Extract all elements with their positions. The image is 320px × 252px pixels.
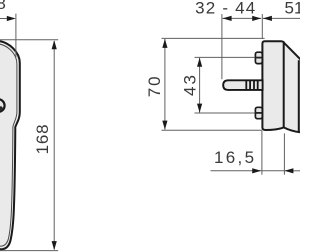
- dimension 16,5 right arrow: [284, 168, 293, 173]
- dimension 168 bottom arrow: [52, 241, 57, 250]
- dimension 43 bottom extension line: [195, 112, 255, 114]
- svg-text:16,5: 16,5: [214, 148, 256, 167]
- dimension 16,5 line left part: [211, 170, 262, 172]
- bottom screw: [255, 107, 262, 118]
- dimension 8 line: [0, 18, 8, 20]
- dimension 32-44 right arrow: [252, 16, 261, 21]
- spindle ribs: [246, 81, 257, 89]
- dimension 168 line: [53, 41, 55, 250]
- dimension 16,5 left extension line: [261, 131, 263, 175]
- svg-text:168: 168: [33, 124, 52, 155]
- dimension 70 top arrow: [162, 39, 167, 48]
- dimension 51 line: [263, 17, 300, 19]
- dimension 32-44 left extension line: [221, 14, 223, 79]
- cylinder ring on front view: [0, 99, 5, 112]
- dimension 168 top extension line: [0, 39, 58, 41]
- svg-text:32 - 44: 32 - 44: [195, 0, 256, 17]
- dimension 168 top arrow: [52, 40, 57, 49]
- front view inner contour: [0, 44, 17, 247]
- svg-text:51: 51: [285, 0, 301, 17]
- keyhole dot: [0, 106, 3, 111]
- svg-text:70: 70: [145, 74, 164, 97]
- spindle: [223, 80, 262, 90]
- dimension 8 extension line: [15, 14, 17, 57]
- dimension 8 arrow: [7, 16, 16, 21]
- dimension 168 bottom extension line: [0, 250, 58, 252]
- dimension 16,5 right extension line: [283, 133, 285, 174]
- dimension 51 arrow: [263, 16, 272, 21]
- dimension 16,5 line right part: [284, 170, 300, 172]
- dimension 32-44 right extension line: [261, 14, 263, 39]
- dimension 43 bottom arrow: [197, 104, 202, 113]
- dimension 43 top arrow: [197, 58, 202, 67]
- front view handle silhouette: [0, 41, 20, 250]
- dimension 32-44 line: [223, 17, 262, 19]
- dimension 43 top extension line: [195, 56, 255, 58]
- svg-text:8: 8: [0, 0, 6, 13]
- dimension 32-44 left arrow: [223, 16, 232, 21]
- side view plate right edge line: [283, 43, 285, 128]
- dimension 70 bottom arrow: [162, 121, 167, 130]
- dimension 16,5 line middle part: [261, 170, 284, 172]
- side view grip edge line: [298, 60, 300, 132]
- dimension 43 line: [199, 58, 201, 113]
- dimension 70 bottom extension line: [162, 129, 263, 131]
- side view silhouette: [262, 41, 302, 132]
- top screw: [255, 52, 262, 63]
- dimension 16,5 left arrow: [252, 168, 261, 173]
- svg-text:43: 43: [181, 73, 200, 96]
- dimension 70 top extension line: [162, 37, 265, 39]
- dimension 70 line: [164, 39, 166, 130]
